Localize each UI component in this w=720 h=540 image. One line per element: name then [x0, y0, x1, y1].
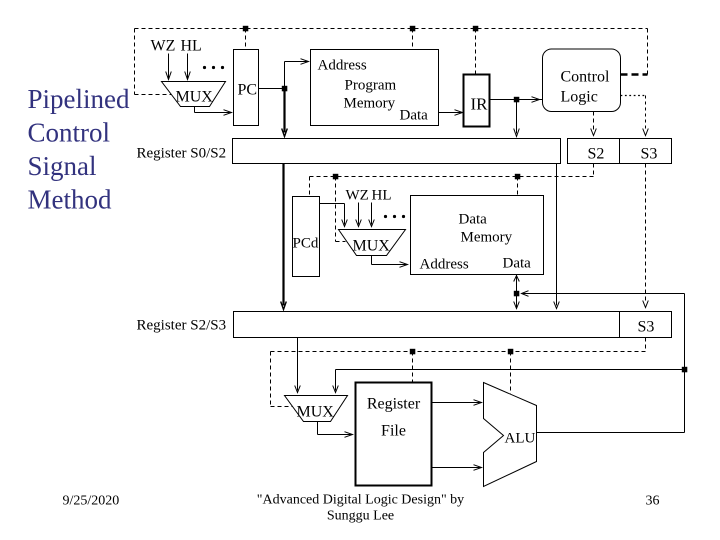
svg-text:Register S2/S3: Register S2/S3 [137, 318, 227, 334]
wire WZ input arrow into MUX1 [168, 54, 170, 79]
register field S3 [620, 139, 672, 164]
alu U2 [484, 383, 537, 487]
wire dashed MUX2 select [336, 177, 346, 242]
svg-text:HL: HL [372, 188, 392, 204]
wire ALU output [537, 432, 685, 434]
wire IR output to Control Logic [490, 99, 543, 101]
wire pass-through down to Register S2/S3 [556, 164, 558, 306]
wire dashed control drop into S2 [593, 112, 595, 132]
wire junction down into Register S0/S2 [516, 100, 518, 134]
register S2/S3 main box [234, 312, 620, 338]
block Control Logic U1 [543, 49, 621, 112]
wire dashed rail into PC top [245, 29, 247, 50]
wire dashed S2 drop to mid rail [593, 164, 595, 177]
svg-text:Register S0/S2: Register S0/S2 [137, 146, 227, 162]
node junction on IR output [514, 97, 520, 103]
wire dashed S3 row2 drop [645, 338, 647, 352]
mux M2 [339, 230, 406, 256]
wire feedback vertical from ALU [684, 294, 686, 433]
svg-text:"Advanced Digital Logic Design: "Advanced Digital Logic Design" by [257, 493, 464, 508]
wire Register File output A to ALU [432, 402, 481, 404]
wire dashed bottom rail [271, 351, 646, 353]
svg-text:Control: Control [28, 118, 111, 148]
wire Program Memory data output into IR [439, 112, 462, 114]
node junction bottom rail above Register File [410, 349, 416, 355]
svg-text:Data: Data [400, 108, 429, 124]
svg-text:Logic: Logic [561, 89, 598, 106]
title text [28, 84, 130, 215]
node junction data port [514, 291, 520, 297]
register IR [464, 75, 490, 127]
svg-text:Register: Register [367, 396, 421, 413]
wire rail right drop to control logic output [647, 29, 649, 75]
wire PCd output into MUX2 [320, 204, 345, 225]
node junction mid rail above Data Memory [515, 174, 521, 180]
wire dashed S3 drop into Register S2/S3 [645, 164, 647, 304]
svg-text:36: 36 [646, 494, 660, 509]
register field S2 [568, 139, 620, 164]
svg-text:Sunggu Lee: Sunggu Lee [327, 509, 394, 524]
wire top dashed rail [135, 28, 648, 30]
wire dashed drop into Register File top [412, 352, 414, 383]
mux M1 [162, 82, 226, 107]
register file block [356, 383, 432, 486]
wire dashed drop into PCd top [309, 177, 311, 197]
node junction bottom rail above ALU [508, 349, 514, 355]
wire HL arrow into MUX2 [371, 203, 373, 225]
register PC [234, 50, 259, 126]
wire thick register pass down to Register S2/S3 [282, 164, 284, 306]
svg-text:9/25/2020: 9/25/2020 [63, 494, 120, 509]
node junction on rail above Program Memory [410, 26, 416, 32]
svg-text:Data: Data [503, 256, 532, 272]
wire MUX3 output into Register File [318, 422, 352, 435]
svg-text:PCd: PCd [293, 236, 319, 252]
register field S3 (row 2) [620, 312, 672, 338]
svg-text:Address: Address [318, 58, 367, 74]
wire PC output to junction [259, 88, 285, 90]
svg-text:Data: Data [459, 212, 488, 228]
svg-text:File: File [381, 423, 406, 440]
svg-text:Method: Method [28, 185, 112, 215]
wire MUX2 output into Data Memory address [372, 256, 407, 265]
svg-text:MUX: MUX [353, 238, 391, 255]
wire HL input arrow into MUX1 [187, 54, 189, 79]
node junction at PC output [282, 86, 288, 92]
wire dashed rail into IR top [475, 29, 477, 75]
wire dotted drop into S3 of Register S0/S2 [645, 96, 647, 132]
wire thick dashed control output [621, 73, 648, 76]
svg-text:Control: Control [561, 69, 610, 86]
svg-text:MUX: MUX [297, 404, 335, 421]
wire feedback branch to MUX3 input [336, 370, 685, 391]
wire feedback horizontal into data port [522, 293, 685, 295]
wire dashed drop into Data Memory top [517, 177, 519, 196]
svg-text:MUX: MUX [176, 89, 214, 106]
svg-text:IR: IR [471, 95, 489, 114]
wire MUX1 output into PC [195, 107, 231, 113]
mux M3 [285, 396, 348, 422]
wire dashed MUX3 select [271, 352, 293, 407]
svg-text:Signal: Signal [28, 151, 97, 181]
register PCd [293, 197, 320, 277]
node junction mid rail above MUX2 [333, 174, 339, 180]
wire rail left drop to MUX1 select [135, 29, 172, 95]
svg-text:PC: PC [238, 82, 258, 99]
svg-text:S3: S3 [641, 146, 658, 163]
wire thick PC value down into Register S0/S2 [283, 89, 285, 133]
ellipsis dots MUX2 inputs [384, 215, 387, 218]
node junction on rail above PC [243, 26, 249, 32]
wire dashed rail into Program Memory top [412, 29, 414, 50]
svg-text:S3: S3 [638, 319, 655, 336]
wire dashed drop into ALU control [510, 352, 512, 395]
svg-text:HL: HL [181, 38, 202, 55]
wire dashed mid rail [310, 176, 594, 178]
wire Register S2/S3 output down to MUX3 [297, 338, 299, 391]
svg-text:Memory: Memory [344, 96, 396, 112]
node junction on rail above IR [473, 26, 479, 32]
wire Data Memory data port vertical [516, 275, 518, 309]
svg-text:Program: Program [345, 78, 397, 94]
ellipsis dots MUX1 inputs [203, 66, 206, 69]
memory Program Memory [311, 50, 439, 126]
register S0/S2 main box [233, 139, 561, 164]
wire Register File output B to ALU [432, 467, 481, 469]
memory Data Memory [411, 196, 544, 275]
svg-text:Memory: Memory [461, 230, 513, 246]
wire WZ arrow into MUX2 [358, 203, 360, 225]
svg-text:WZ: WZ [151, 38, 176, 55]
node junction feedback branch [682, 367, 688, 373]
svg-text:WZ: WZ [346, 188, 369, 204]
svg-text:Address: Address [420, 257, 469, 273]
svg-text:ALU: ALU [505, 431, 536, 447]
svg-text:Pipelined: Pipelined [28, 84, 130, 114]
svg-text:S2: S2 [588, 146, 605, 163]
wire dotted control output [621, 95, 646, 97]
wire junction up to Program Memory address [285, 62, 308, 89]
